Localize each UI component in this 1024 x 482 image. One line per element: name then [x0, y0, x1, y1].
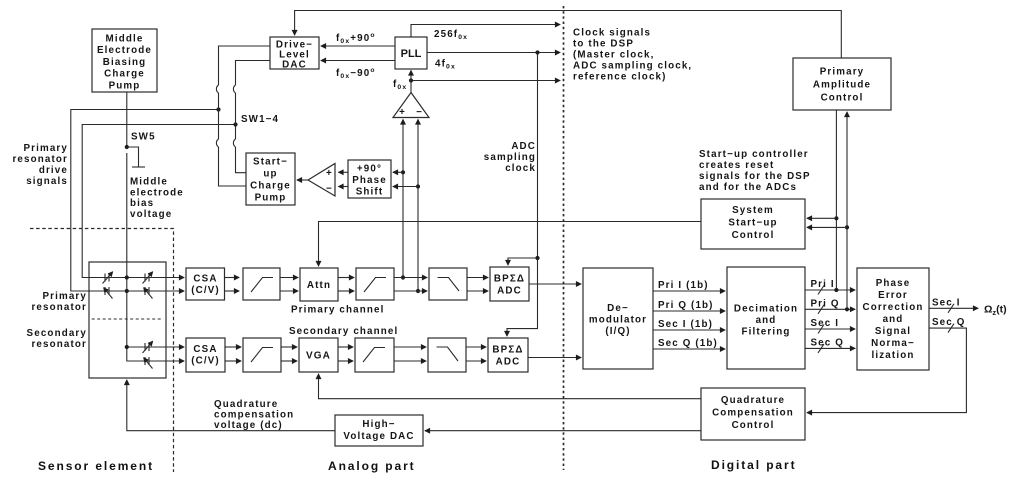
wire: drive-level DAC to SW1 switch leg: [216, 46, 270, 186]
wire: decimation Sec I out: [805, 325, 855, 334]
primary channel wires CSA1-HPF1: [225, 278, 240, 292]
svg-text:Pri Q (1b): Pri Q (1b): [658, 300, 714, 311]
label Pri I: [811, 279, 835, 290]
box: BP sigma-delta ADC1: [490, 267, 529, 301]
wire: ADC2 to demodulator: [528, 357, 581, 359]
variable capacitor secondary upper: [143, 342, 153, 354]
box: LPF2: [428, 338, 466, 372]
svg-text:De−: De−: [607, 303, 629, 314]
junction dots middle line on primary wires: [125, 275, 129, 293]
svg-text:clock: clock: [505, 163, 536, 174]
svg-text:and: and: [883, 314, 904, 325]
wire: PLL to DAC f0x+90: [321, 45, 395, 47]
svg-text:Ωz(t): Ωz(t): [984, 304, 1007, 318]
svg-text:Sec Q (1b): Sec Q (1b): [658, 338, 718, 349]
label SW1-4: [241, 114, 279, 125]
svg-text:resonator: resonator: [31, 302, 87, 313]
svg-text:Sec I: Sec I: [811, 318, 840, 329]
label Sec I out: [932, 297, 961, 308]
svg-text:Primary: Primary: [820, 67, 865, 78]
svg-text:Pri I (1b): Pri I (1b): [658, 280, 709, 291]
svg-text:(C/V): (C/V): [191, 356, 220, 367]
svg-text:modulator: modulator: [589, 315, 647, 326]
wire: primary drive bus 2: [82, 122, 237, 277]
label primary resonator: [31, 291, 87, 313]
wire: decimation Pri Q out: [805, 305, 855, 314]
svg-text:Secondary channel: Secondary channel: [289, 326, 398, 337]
svg-text:Phase: Phase: [876, 278, 911, 289]
wire: high-voltage DAC to sensor element: [127, 380, 335, 431]
label analog part: [328, 459, 416, 473]
svg-text:Filtering: Filtering: [742, 327, 791, 338]
wire: Pri Q to primary amplitude control: [845, 112, 849, 311]
svg-text:voltage: voltage: [130, 209, 172, 220]
wire: demod Sec I (1b): [653, 329, 725, 331]
svg-text:creates reset: creates reset: [699, 160, 774, 171]
box: drive-level DAC: [270, 37, 319, 71]
svg-text:Sensor element: Sensor element: [38, 459, 154, 473]
wire: decimation Pri I out: [805, 286, 855, 295]
svg-text:Control: Control: [732, 230, 775, 241]
wire: secondary upper from middle line: [125, 345, 184, 349]
box: decimation and filtering: [727, 267, 805, 369]
svg-text:Sec I: Sec I: [932, 297, 961, 308]
svg-text:Voltage DAC: Voltage DAC: [343, 431, 414, 442]
primary channel wires HPF1-Attn: [280, 278, 298, 292]
svg-text:Pump: Pump: [109, 80, 141, 91]
primary channel wires HPF2-LPF1: [394, 278, 427, 292]
svg-text:lization: lization: [872, 350, 915, 361]
oscillator comparator triangle: [393, 93, 429, 119]
svg-text:voltage (dc): voltage (dc): [214, 420, 283, 431]
box: VGA: [299, 338, 338, 372]
svg-text:VGA: VGA: [306, 351, 331, 362]
label digital part: [711, 458, 796, 472]
dashed sensor-element boundary: [30, 229, 174, 473]
svg-text:Sec I (1b): Sec I (1b): [658, 319, 713, 330]
svg-text:resonator: resonator: [12, 154, 68, 165]
box: CSA1: [186, 268, 225, 300]
wire: Sec Q output to quadrature compensation control: [807, 324, 966, 413]
variable capacitor primary lower left: [104, 287, 113, 299]
svg-text:Amplitude: Amplitude: [813, 80, 871, 91]
wire: quadrature compensation control to VGA: [319, 374, 702, 399]
primary channel wires Attn-HPF2: [338, 278, 354, 292]
svg-text:signals: signals: [26, 176, 68, 187]
label Pri Q: [811, 298, 840, 309]
secondary channel wires VGA-HPF4: [338, 347, 353, 361]
svg-text:Digital part: Digital part: [711, 458, 796, 472]
box: start-up charge pump: [246, 153, 295, 205]
wire: branch to system start-up control lower: [807, 226, 847, 228]
box: Attn: [300, 268, 338, 301]
box: HPF3: [243, 338, 281, 372]
box: quadrature compensation control: [701, 388, 805, 440]
svg-text:CSA: CSA: [193, 274, 217, 285]
svg-text:Decimation: Decimation: [734, 304, 798, 315]
svg-text:(I/Q): (I/Q): [605, 326, 630, 337]
svg-text:ADC sampling clock,: ADC sampling clock,: [573, 61, 692, 72]
svg-text:(Master clock,: (Master clock,: [573, 50, 654, 61]
sensor element outline: [89, 262, 166, 378]
wire: f0x output: [409, 78, 560, 82]
svg-text:Middle: Middle: [130, 177, 168, 188]
svg-text:ADC: ADC: [511, 141, 536, 152]
svg-text:Pri I: Pri I: [811, 279, 835, 290]
svg-text:SW5: SW5: [131, 132, 156, 143]
label f0x-90: [336, 67, 376, 80]
wire: PLL 4f0x output: [427, 50, 560, 54]
svg-text:+: +: [399, 107, 406, 118]
wire: PLL to DAC f0x-90: [321, 60, 395, 62]
svg-text:Middle: Middle: [106, 34, 144, 45]
svg-text:Quadrature: Quadrature: [721, 395, 785, 406]
variable capacitor secondary lower: [144, 357, 153, 369]
svg-text:up: up: [263, 169, 277, 180]
svg-text:+: +: [326, 168, 333, 179]
label primary channel: [291, 305, 384, 316]
svg-text:+90°: +90°: [357, 164, 382, 175]
svg-text:Shift: Shift: [356, 187, 384, 198]
box: middle electrode biasing charge pump: [92, 29, 157, 92]
label clock signals to the DSP: [573, 28, 692, 83]
label middle electrode bias voltage: [130, 177, 184, 221]
wire: startup amp to start-up charge pump: [297, 179, 308, 181]
svg-text:reference clock): reference clock): [573, 72, 667, 83]
label Sec I (1b): [658, 319, 713, 330]
svg-text:BPΣΔ: BPΣΔ: [494, 274, 525, 285]
svg-text:−: −: [326, 184, 333, 195]
variable capacitor primary upper left: [103, 272, 113, 284]
box: primary amplitude control: [793, 58, 891, 110]
wire: drive-level DAC to SW2 switch leg: [233, 61, 270, 173]
svg-text:System: System: [732, 205, 774, 216]
box: CSA2: [186, 338, 225, 372]
arrowheads into CSA1: [180, 278, 184, 292]
box: BP sigma-delta ADC2: [488, 338, 528, 372]
svg-text:electrode: electrode: [130, 187, 184, 198]
wire: oscillator + input vertical: [401, 120, 405, 280]
label secondary resonator: [27, 328, 87, 350]
variable capacitor primary lower right: [144, 287, 153, 299]
label Sec I mid: [811, 318, 840, 329]
wire: branch to system start-up control upper: [807, 217, 836, 219]
svg-text:Signal: Signal: [875, 326, 911, 337]
label Sec Q mid: [811, 337, 845, 348]
wire: tap to phase shift -: [393, 186, 418, 188]
svg-text:Primary channel: Primary channel: [291, 305, 384, 316]
wire: primary drive bus 1: [71, 107, 221, 291]
secondary channel wires CSA2-HPF3: [225, 347, 241, 361]
svg-text:Norma−: Norma−: [871, 338, 915, 349]
wire: tap to phase shift +: [393, 171, 403, 173]
wire: Sec I output to Omega: [929, 304, 978, 313]
svg-text:BPΣΔ: BPΣΔ: [492, 345, 523, 356]
svg-text:resonator: resonator: [31, 339, 87, 350]
label 256f0x: [434, 29, 468, 41]
wire: demod Pri Q (1b): [653, 310, 725, 312]
box: +90 phase shift: [348, 160, 391, 198]
box: system start-up control: [701, 199, 805, 249]
wire: Pri I to primary amplitude control: [834, 110, 838, 292]
wire: ADC1 to demodulator: [529, 283, 581, 285]
label 4f0x: [435, 59, 456, 71]
svg-text:Sec Q: Sec Q: [811, 337, 845, 348]
primary channel wires LPF1-ADC1: [467, 278, 488, 292]
svg-text:ADC: ADC: [497, 286, 522, 297]
label f0x: [393, 79, 407, 91]
wire: oscillator - input vertical: [416, 120, 420, 294]
wire: decimation Sec Q out: [805, 344, 855, 353]
box: HPF4: [355, 338, 394, 372]
label f0x+90: [336, 32, 376, 45]
box: phase error correction: [857, 268, 929, 370]
svg-text:DAC: DAC: [282, 60, 307, 71]
svg-text:Start−up controller: Start−up controller: [699, 149, 809, 160]
svg-text:Clock signals: Clock signals: [573, 28, 651, 39]
start-up amp triangle: [308, 164, 335, 197]
svg-text:Pump: Pump: [255, 193, 287, 204]
svg-text:and for the ADCs: and for the ADCs: [699, 182, 797, 193]
box: HPF2: [356, 268, 394, 300]
secondary channel wires HPF3-VGA: [281, 347, 297, 361]
svg-text:Pri Q: Pri Q: [811, 298, 840, 309]
svg-text:High−: High−: [362, 419, 395, 430]
svg-text:Compensation: Compensation: [712, 408, 794, 419]
svg-text:Quadrature: Quadrature: [214, 399, 278, 410]
label ADC sampling clock: [484, 141, 536, 174]
wire: phase shift to startup amp -: [339, 186, 349, 188]
label Sec Q out: [932, 317, 966, 328]
label Omega_z(t): [984, 304, 1007, 318]
svg-text:sampling: sampling: [484, 152, 536, 163]
svg-text:Attn: Attn: [307, 280, 331, 291]
svg-text:Biasing: Biasing: [103, 57, 146, 68]
svg-text:Phase: Phase: [352, 175, 387, 186]
svg-text:signals for the DSP: signals for the DSP: [699, 171, 811, 182]
svg-text:Start−: Start−: [253, 157, 288, 168]
wire: quadrature compensation control to high-voltage DAC: [425, 430, 701, 432]
svg-text:and: and: [756, 315, 777, 326]
switch SW5 symbol: [128, 147, 145, 167]
svg-text:SW1−4: SW1−4: [241, 114, 279, 125]
box: HPF1: [243, 268, 280, 300]
svg-text:Control: Control: [732, 420, 775, 431]
svg-text:Electrode: Electrode: [97, 45, 152, 56]
svg-text:−: −: [416, 107, 423, 118]
svg-text:CSA: CSA: [193, 344, 217, 355]
svg-text:Sec Q: Sec Q: [932, 317, 966, 328]
svg-text:(C/V): (C/V): [191, 285, 220, 296]
svg-text:Secondary: Secondary: [27, 328, 87, 339]
wire: primary amplitude control to drive-level DAC (top loop): [295, 11, 842, 59]
dashed analog/digital boundary: [563, 6, 565, 470]
svg-text:PLL: PLL: [401, 48, 422, 60]
wire: demod Sec Q (1b): [653, 348, 725, 350]
wire: middle electrode line: [125, 92, 184, 361]
svg-text:Primary: Primary: [23, 143, 68, 154]
svg-text:drive: drive: [39, 165, 68, 176]
arrowheads into CSA2: [180, 360, 184, 362]
svg-text:Primary: Primary: [42, 291, 87, 302]
svg-text:compensation: compensation: [214, 410, 294, 421]
svg-text:Charge: Charge: [104, 69, 145, 80]
label start-up controller note: [699, 149, 811, 193]
svg-text:Start−up: Start−up: [728, 218, 777, 229]
wire: PLL 256f0x output: [411, 25, 560, 38]
box: high-voltage DAC: [335, 415, 423, 446]
svg-text:Error: Error: [878, 290, 908, 301]
box: LPF1: [429, 268, 467, 300]
secondary channel wires LPF2-ADC2: [466, 347, 486, 361]
wire: phase shift to startup amp +: [339, 171, 349, 173]
wire: ADC sampling clock vertical: [507, 53, 540, 337]
wire: system start-up control to Attn: [319, 222, 702, 267]
label quadrature compensation voltage: [214, 399, 294, 431]
svg-text:Charge: Charge: [250, 181, 291, 192]
svg-text:ADC: ADC: [496, 357, 521, 368]
svg-text:bias: bias: [130, 198, 154, 209]
label sensor element: [38, 459, 154, 473]
label secondary channel: [289, 326, 398, 337]
box: PLL: [395, 37, 427, 69]
variable capacitor primary upper right: [143, 272, 153, 284]
label Pri I (1b): [658, 280, 709, 291]
label primary resonator drive signals: [12, 143, 68, 187]
box: demodulator: [583, 268, 653, 369]
wire: demod Pri I (1b): [653, 290, 725, 292]
wire: oscillator to PLL: [410, 71, 412, 93]
secondary channel wires HPF4-LPF2: [394, 347, 426, 361]
label Pri Q (1b): [658, 300, 714, 311]
svg-text:Correction: Correction: [862, 302, 923, 313]
svg-text:Analog part: Analog part: [328, 459, 416, 473]
label SW5: [131, 132, 156, 143]
label Sec Q (1b): [658, 338, 718, 349]
svg-text:Control: Control: [821, 93, 864, 104]
svg-text:to the DSP: to the DSP: [573, 39, 634, 50]
